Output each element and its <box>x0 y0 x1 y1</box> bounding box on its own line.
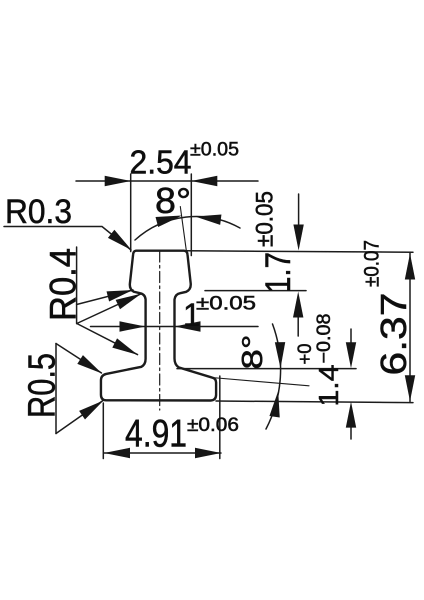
svg-text:R0.4: R0.4 <box>43 248 84 321</box>
web width 1 dimension <box>91 326 259 328</box>
centerline <box>159 251 161 410</box>
8 deg lower: ext line, slope ext, arc <box>177 368 356 370</box>
R0.4 leader fan <box>76 247 78 324</box>
4.91 dimension <box>102 403 104 459</box>
svg-text:1.4: 1.4 <box>313 365 344 407</box>
svg-text:±0.05: ±0.05 <box>190 140 239 161</box>
foot bottom extension line <box>216 401 413 403</box>
svg-text:±0.05: ±0.05 <box>252 191 279 247</box>
svg-text:R0.5: R0.5 <box>22 353 64 418</box>
svg-text:±0.07: ±0.07 <box>361 240 384 287</box>
svg-text:2.54: 2.54 <box>130 144 192 181</box>
svg-text:±0.06: ±0.06 <box>187 415 239 436</box>
svg-text:+0: +0 <box>295 344 316 365</box>
R0.5 leader <box>55 344 57 434</box>
1.7 dimension <box>298 194 300 229</box>
2.54 dimension <box>76 180 258 182</box>
6.37 dimension <box>409 253 411 402</box>
svg-text:4.91: 4.91 <box>125 413 187 456</box>
svg-text:8°: 8° <box>155 180 191 221</box>
svg-text:±0.05: ±0.05 <box>196 294 256 315</box>
svg-text:1.7: 1.7 <box>259 252 298 293</box>
1.4 dimension <box>350 329 352 347</box>
svg-text:−0.08: −0.08 <box>314 314 335 364</box>
head bottom extension line <box>205 290 306 292</box>
R0.3 leader <box>4 227 131 251</box>
head top extension line <box>185 251 413 252</box>
rail profile outline <box>101 251 216 401</box>
svg-text:6.37: 6.37 <box>373 293 414 376</box>
svg-text:8°: 8° <box>237 335 269 370</box>
8 deg upper: side extension line + arc <box>180 207 186 251</box>
svg-text:R0.3: R0.3 <box>5 193 72 231</box>
